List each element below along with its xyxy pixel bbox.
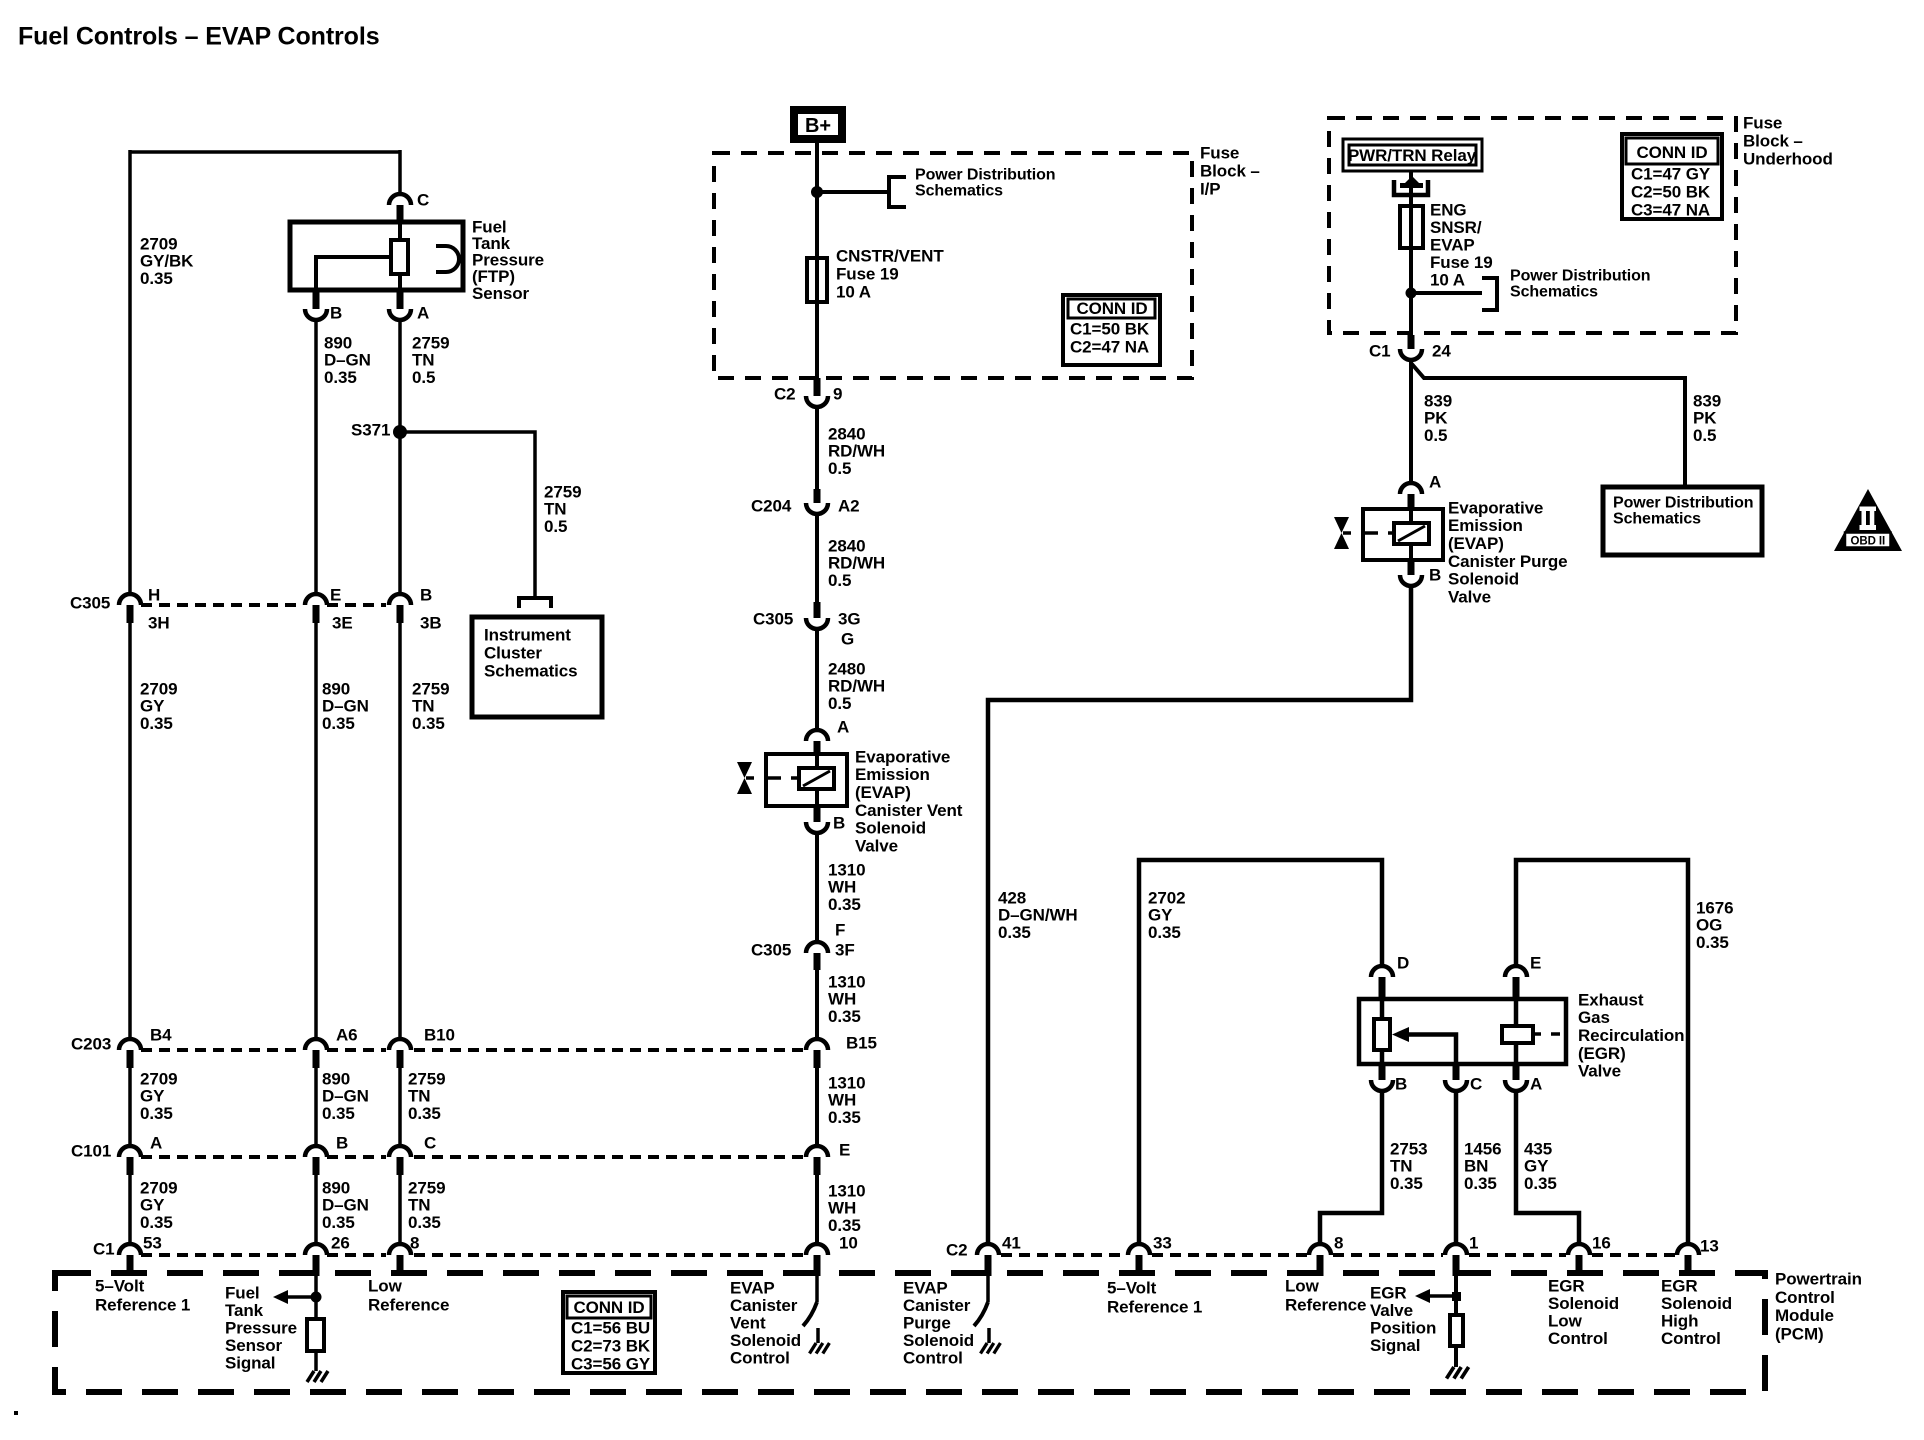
label E: [330, 585, 341, 604]
svg-text:B: B: [833, 813, 845, 832]
connector arc B10: [389, 1039, 411, 1050]
powertrain control module dashed box: [55, 1273, 1765, 1392]
svg-text:C: C: [1470, 1074, 1482, 1093]
svg-text:Power Distribution: Power Distribution: [1510, 268, 1650, 285]
label 890 low: [322, 1069, 369, 1122]
label conn id PCM lines: [571, 1318, 651, 1373]
label B purge: [1429, 565, 1441, 584]
connector arc B15: [806, 1039, 828, 1050]
svg-text:2702: 2702: [1148, 888, 1185, 907]
svg-text:RD/WH: RD/WH: [828, 554, 885, 573]
wire 1310 d: [815, 1175, 819, 1246]
svg-text:0.35: 0.35: [324, 368, 357, 387]
wire 2480: [815, 629, 819, 731]
svg-text:B: B: [330, 303, 342, 322]
svg-text:Cluster: Cluster: [484, 643, 542, 662]
svg-text:Valve: Valve: [1578, 1062, 1621, 1081]
label 3F: [835, 940, 855, 959]
conn id box IP: [1063, 295, 1160, 365]
label wire 2759 TN: [412, 333, 449, 386]
svg-text:Emission: Emission: [855, 765, 930, 784]
ground EGR resistor: [1447, 1367, 1469, 1379]
svg-text:WH: WH: [828, 990, 856, 1009]
connector arc 10: [806, 1244, 828, 1255]
label wire 2709 GY/BK: [140, 234, 194, 287]
wire to power distribution bracket UH: [1411, 291, 1482, 295]
svg-text:Gas: Gas: [1578, 1008, 1610, 1027]
purge control driver wire: [986, 1276, 990, 1302]
off-page bracket power distribution IP: [889, 177, 906, 207]
label C1 row: [93, 1239, 115, 1258]
svg-text:Solenoid: Solenoid: [1448, 570, 1519, 589]
svg-text:53: 53: [143, 1233, 162, 1252]
svg-text:3G: 3G: [838, 609, 860, 628]
svg-text:Fuse: Fuse: [1200, 143, 1239, 162]
svg-text:Vent: Vent: [730, 1313, 766, 1332]
fuse block I/P dashed box: [714, 153, 1192, 378]
svg-text:C305: C305: [70, 593, 110, 612]
svg-text:Signal: Signal: [1370, 1336, 1420, 1355]
svg-text:Schematics: Schematics: [484, 661, 578, 680]
label instrument cluster: [484, 625, 578, 680]
connector arc 33: [1128, 1244, 1150, 1255]
connector arc B vent: [806, 822, 828, 833]
label 2840 upper: [828, 424, 885, 477]
pin stub C C101: [397, 1157, 404, 1175]
svg-text:0.35: 0.35: [1390, 1174, 1423, 1193]
ground purge control: [981, 1343, 1001, 1354]
PWR/TRN relay box: [1343, 139, 1482, 171]
svg-text:0.5: 0.5: [828, 571, 851, 590]
pin stub H: [127, 605, 134, 623]
label C2 row: [946, 1240, 968, 1259]
svg-text:C: C: [417, 190, 429, 209]
label 1456: [1464, 1139, 1501, 1192]
svg-text:0.35: 0.35: [1524, 1174, 1557, 1193]
svg-text:E: E: [330, 585, 341, 604]
label 2702: [1148, 888, 1185, 941]
ground vent control: [810, 1343, 830, 1354]
svg-text:CONN ID: CONN ID: [573, 1298, 644, 1317]
connector arc 8 C1: [389, 1244, 411, 1255]
label FTP sensor: [472, 217, 544, 302]
wire 2709 GY low: [128, 1068, 132, 1148]
svg-text:A: A: [150, 1133, 162, 1152]
svg-text:Exhaust: Exhaust: [1578, 990, 1644, 1009]
purge solenoid wire bottom: [1409, 544, 1413, 560]
svg-text:890: 890: [322, 1178, 350, 1197]
wire 839 PK left: [1409, 360, 1413, 483]
svg-text:C2=50 BK: C2=50 BK: [1631, 182, 1711, 201]
connector arc E C305: [305, 594, 327, 605]
svg-text:Solenoid: Solenoid: [730, 1331, 801, 1350]
svg-text:A6: A6: [336, 1025, 358, 1044]
svg-text:1310: 1310: [828, 860, 865, 879]
svg-text:OBD II: OBD II: [1851, 536, 1886, 548]
label 1310 a: [828, 860, 865, 913]
label C EGR: [1470, 1074, 1482, 1093]
svg-text:Position: Position: [1370, 1318, 1436, 1337]
svg-text:C1=47 GY: C1=47 GY: [1631, 164, 1711, 183]
vent control switch blade: [803, 1302, 817, 1326]
svg-text:GY: GY: [140, 697, 165, 716]
label conn id IP lines: [1070, 319, 1150, 356]
connector arc 1: [1445, 1244, 1467, 1255]
svg-text:TN: TN: [1390, 1157, 1412, 1176]
svg-text:Evaporative: Evaporative: [855, 747, 950, 766]
label 26: [331, 1233, 350, 1252]
svg-text:9: 9: [833, 384, 842, 403]
FTP resistor ground wire: [314, 1351, 318, 1371]
svg-text:WH: WH: [828, 1091, 856, 1110]
label 8 C1: [410, 1233, 419, 1252]
fuel tank pressure sensor box: [290, 222, 463, 290]
label low reference left: [368, 1276, 449, 1314]
label H: [148, 585, 160, 604]
svg-text:Fuse 19: Fuse 19: [836, 264, 899, 283]
svg-text:2709: 2709: [140, 679, 177, 698]
svg-text:5–Volt: 5–Volt: [95, 1276, 145, 1295]
wire 1676 OG: [1516, 860, 1688, 1246]
pin stub C305-3F: [814, 953, 821, 970]
svg-text:EVAP: EVAP: [903, 1278, 948, 1297]
pin stub D EGR: [1379, 977, 1386, 999]
svg-text:(EVAP): (EVAP): [855, 783, 911, 802]
label C204: [751, 496, 792, 515]
wire 890 low: [314, 1068, 318, 1148]
label B15: [846, 1033, 877, 1052]
connector arc E EGR: [1505, 966, 1527, 977]
svg-text:I/P: I/P: [1200, 179, 1221, 198]
svg-text:2840: 2840: [828, 536, 865, 555]
label PCM: [1775, 1269, 1862, 1343]
label fuse CNSTR/VENT: [836, 246, 944, 301]
junction dot underhood: [1406, 288, 1417, 299]
FTP signal arrow: [273, 1290, 316, 1304]
pin stub C EGR: [1453, 1064, 1460, 1080]
wire 1310 b: [815, 970, 819, 1041]
pin stub 41: [985, 1255, 992, 1276]
svg-text:B4: B4: [150, 1025, 172, 1044]
connector arc 41: [977, 1244, 999, 1255]
svg-text:2840: 2840: [828, 424, 865, 443]
svg-text:TN: TN: [412, 351, 434, 370]
svg-text:0.35: 0.35: [828, 1216, 861, 1235]
vent valve dashes: [746, 776, 799, 780]
svg-text:Schematics: Schematics: [1613, 511, 1701, 528]
connector arc C305-3F: [806, 942, 828, 953]
label 1310 c: [828, 1073, 865, 1126]
svg-text:Purge: Purge: [903, 1313, 951, 1332]
label EVAP vent solenoid control: [730, 1278, 801, 1367]
label A C101: [150, 1133, 162, 1152]
connector arc B C101: [305, 1146, 327, 1157]
label F: [835, 920, 845, 939]
connector row C2 dashed: [1001, 1253, 1675, 1257]
label EGR valve position signal: [1370, 1283, 1436, 1355]
wire 2759 TN from A: [398, 320, 402, 595]
wire 2759 low: [398, 1068, 402, 1148]
pin stub C204: [814, 489, 821, 503]
svg-text:2759: 2759: [412, 333, 449, 352]
relay pin arrow: [1400, 183, 1423, 188]
svg-text:EVAP: EVAP: [730, 1278, 775, 1297]
svg-text:3F: 3F: [835, 940, 855, 959]
label 2759 low: [408, 1069, 445, 1122]
label wire 2759 TN branch: [544, 482, 581, 535]
label C305 3G: [753, 609, 793, 628]
svg-text:EGR: EGR: [1661, 1276, 1698, 1295]
label 2840 lower: [828, 536, 885, 589]
svg-text:B: B: [1395, 1074, 1407, 1093]
svg-text:Fuse: Fuse: [1743, 113, 1782, 132]
label 890 bottom: [322, 1178, 369, 1231]
svg-text:Valve: Valve: [1370, 1301, 1413, 1320]
svg-text:(PCM): (PCM): [1775, 1325, 1824, 1344]
pin stub E EGR: [1513, 977, 1520, 999]
vent control ground stub: [816, 1328, 820, 1343]
label B4: [150, 1025, 172, 1044]
svg-text:TN: TN: [408, 1196, 430, 1215]
svg-text:D–GN: D–GN: [324, 351, 371, 370]
wire 1456 BN: [1454, 1091, 1459, 1246]
wire 1310 c: [815, 1068, 819, 1148]
connector row C305 dashed: [141, 603, 386, 607]
label wire 2759 mid: [412, 679, 449, 732]
vent control driver wire: [815, 1276, 819, 1302]
label 9: [833, 384, 842, 403]
svg-text:GY: GY: [140, 1196, 165, 1215]
svg-text:C3=56 GY: C3=56 GY: [571, 1354, 651, 1373]
svg-text:8: 8: [1334, 1233, 1343, 1252]
pin stub C305-3G: [814, 602, 821, 618]
connector row C203 dashed: [141, 1048, 803, 1052]
svg-text:Pressure: Pressure: [225, 1318, 297, 1337]
svg-text:Reference: Reference: [1285, 1295, 1366, 1314]
EGR valve box: [1359, 999, 1566, 1064]
svg-text:D–GN: D–GN: [322, 1087, 369, 1106]
label power distribution box: [1613, 495, 1753, 528]
svg-text:0.35: 0.35: [322, 714, 355, 733]
svg-text:CONN ID: CONN ID: [1076, 299, 1147, 318]
EGR potentiometer: [1374, 1019, 1390, 1050]
label wire 2709 GY mid: [140, 679, 177, 732]
svg-text:1: 1: [1469, 1233, 1478, 1252]
pin stub 8 C2: [1317, 1255, 1324, 1276]
pin stub 26: [313, 1255, 320, 1276]
pin stub 16: [1576, 1255, 1583, 1276]
svg-text:Control: Control: [730, 1348, 790, 1367]
svg-text:Control: Control: [1548, 1329, 1608, 1348]
connector arc C C101: [389, 1146, 411, 1157]
svg-text:Sensor: Sensor: [472, 284, 530, 303]
label 2709 low: [140, 1069, 177, 1122]
purge control switch blade: [974, 1302, 988, 1326]
pin stub E center: [814, 1157, 821, 1175]
splice S371: [393, 425, 407, 439]
svg-text:OG: OG: [1696, 916, 1722, 935]
svg-text:0.5: 0.5: [412, 368, 435, 387]
svg-text:Schematics: Schematics: [1510, 284, 1598, 301]
label B C101: [336, 1133, 348, 1152]
wire 2759 TN mid: [398, 623, 402, 1041]
power distribution schematics box: [1603, 487, 1762, 555]
pin stub C (FTP): [397, 205, 404, 222]
svg-text:41: 41: [1002, 1233, 1021, 1252]
svg-text:2480: 2480: [828, 659, 865, 678]
wire B+ down: [815, 139, 819, 380]
label C C101: [424, 1133, 436, 1152]
svg-text:Control: Control: [1775, 1288, 1835, 1307]
label wire 890 mid: [322, 679, 369, 732]
connector arc A purge: [1400, 483, 1422, 494]
svg-text:0.35: 0.35: [140, 269, 173, 288]
label EGR solenoid high control: [1661, 1276, 1732, 1348]
svg-text:PWR/TRN Relay: PWR/TRN Relay: [1348, 146, 1477, 165]
svg-text:B: B: [1429, 565, 1441, 584]
svg-text:Module: Module: [1775, 1306, 1834, 1325]
label C101 row: [71, 1141, 111, 1160]
svg-text:D–GN: D–GN: [322, 697, 369, 716]
svg-text:1310: 1310: [828, 1181, 865, 1200]
EGR position wire: [1454, 1276, 1458, 1315]
svg-text:3H: 3H: [148, 613, 170, 632]
svg-text:Block –: Block –: [1743, 131, 1803, 150]
pin stub B (FTP): [313, 290, 320, 309]
wire 2702 GY: [1139, 860, 1382, 1246]
connector arc B purge: [1400, 575, 1422, 586]
conn id box UH: [1622, 134, 1722, 219]
svg-text:1456: 1456: [1464, 1139, 1501, 1158]
label 3B: [420, 613, 442, 632]
label E EGR: [1530, 953, 1541, 972]
fuse ENG SNSR/EVAP: [1400, 206, 1423, 248]
label 839 right: [1693, 391, 1721, 444]
wire 890 bottom: [314, 1175, 318, 1246]
svg-text:BN: BN: [1464, 1157, 1488, 1176]
label power distribution UH: [1510, 268, 1650, 301]
label 41: [1002, 1233, 1021, 1252]
label B EGR: [1395, 1074, 1407, 1093]
vent solenoid wire bottom: [815, 789, 819, 806]
svg-text:C2: C2: [946, 1240, 968, 1259]
svg-text:Canister Vent: Canister Vent: [855, 801, 963, 820]
svg-text:Evaporative: Evaporative: [1448, 498, 1543, 517]
svg-text:2759: 2759: [544, 482, 581, 501]
svg-text:C305: C305: [751, 940, 791, 959]
ground FTP resistor: [307, 1371, 328, 1382]
purge solenoid wire top: [1409, 509, 1413, 523]
svg-text:Power Distribution: Power Distribution: [1613, 495, 1753, 512]
svg-text:Tank: Tank: [225, 1301, 264, 1320]
label B: [420, 585, 432, 604]
connector row C101 dashed: [141, 1155, 803, 1159]
off-page bracket power distribution UH: [1482, 278, 1497, 310]
svg-text:B15: B15: [846, 1033, 877, 1052]
label 3G: [838, 609, 860, 628]
label C2-9: [774, 384, 796, 403]
connector arc H C305: [119, 594, 141, 605]
pin stub B10: [397, 1050, 404, 1068]
label 3H: [148, 613, 170, 632]
label 3E: [332, 613, 353, 632]
svg-text:Low: Low: [368, 1276, 403, 1295]
svg-text:C1=56 BU: C1=56 BU: [571, 1318, 650, 1337]
svg-text:Powertrain: Powertrain: [1775, 1269, 1862, 1288]
connector arc C EGR: [1445, 1080, 1467, 1091]
svg-text:0.5: 0.5: [544, 517, 567, 536]
svg-text:3E: 3E: [332, 613, 353, 632]
label 2709 bottom: [140, 1178, 177, 1231]
svg-text:0.35: 0.35: [408, 1213, 441, 1232]
vent valve bowtie: [737, 762, 752, 794]
svg-text:A: A: [417, 303, 429, 322]
label B vent: [833, 813, 845, 832]
svg-text:Underhood: Underhood: [1743, 149, 1833, 168]
wire 890 D-GN from B: [314, 320, 318, 595]
svg-text:10: 10: [839, 1233, 858, 1252]
svg-text:0.35: 0.35: [412, 714, 445, 733]
svg-text:Signal: Signal: [225, 1353, 275, 1372]
svg-text:Solenoid: Solenoid: [1661, 1294, 1732, 1313]
svg-text:Control: Control: [903, 1348, 963, 1367]
label 2480: [828, 659, 885, 712]
svg-text:ENG: ENG: [1430, 200, 1467, 219]
svg-text:2709: 2709: [140, 1178, 177, 1197]
svg-text:C101: C101: [71, 1141, 111, 1160]
svg-text:WH: WH: [828, 878, 856, 897]
svg-text:C: C: [424, 1133, 436, 1152]
svg-text:C1: C1: [93, 1239, 115, 1258]
connector arc A6: [305, 1039, 327, 1050]
svg-text:C203: C203: [71, 1034, 111, 1053]
wire 428 D-GN/WH: [988, 586, 1411, 1246]
svg-text:33: 33: [1153, 1233, 1172, 1252]
label B: [330, 303, 342, 322]
label 1: [1469, 1233, 1478, 1252]
wire 435 GY: [1516, 1091, 1579, 1246]
svg-text:13: 13: [1700, 1236, 1719, 1255]
pin stub 33: [1136, 1255, 1143, 1276]
title text: [18, 22, 380, 50]
FTP internal wire C to resistor: [398, 222, 402, 240]
label C203 row: [71, 1034, 111, 1053]
svg-text:1310: 1310: [828, 972, 865, 991]
label EVAP purge solenoid control: [903, 1278, 974, 1367]
svg-text:TN: TN: [412, 697, 434, 716]
svg-text:890: 890: [322, 679, 350, 698]
svg-text:Canister Purge: Canister Purge: [1448, 552, 1568, 571]
label D EGR: [1397, 953, 1409, 972]
connector arc C305-3G: [806, 618, 828, 629]
svg-text:428: 428: [998, 888, 1026, 907]
wire 1310 a: [815, 833, 819, 944]
svg-text:2759: 2759: [408, 1178, 445, 1197]
purge control ground stub: [987, 1328, 991, 1343]
OBD II triangle icon: [1834, 489, 1902, 551]
fuse CNSTR/VENT: [807, 258, 827, 302]
svg-text:GY: GY: [140, 1087, 165, 1106]
svg-text:2759: 2759: [412, 679, 449, 698]
svg-text:Fuel Controls – EVAP Controls: Fuel Controls – EVAP Controls: [18, 22, 380, 50]
label fuse block IP: [1200, 143, 1260, 198]
svg-text:Block –: Block –: [1200, 161, 1260, 180]
FTP pull resistor: [307, 1319, 324, 1351]
svg-text:0.35: 0.35: [140, 714, 173, 733]
EGR position arrow: [1415, 1289, 1452, 1303]
label 5-volt reference 1 right: [1107, 1278, 1202, 1316]
connector arc 53: [119, 1244, 141, 1255]
